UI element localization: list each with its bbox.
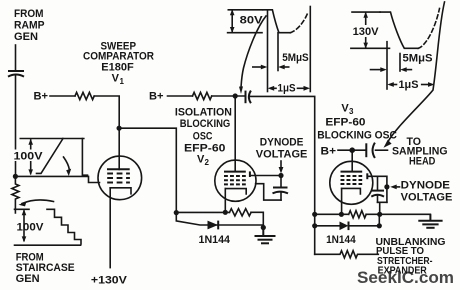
arrow 1uS left wf2 <box>387 82 396 87</box>
resistor R4 <box>349 211 366 218</box>
waveform 80V dashed rise <box>290 11 308 32</box>
node row A left <box>174 210 179 215</box>
svg-text:EFP-60: EFP-60 <box>325 116 365 128</box>
label ISOLATION BLOCKING OSC EFP-60 V2 <box>175 107 232 167</box>
svg-text:5MμS: 5MμS <box>282 52 309 64</box>
svg-text:FROM: FROM <box>14 8 44 20</box>
wire B+ to R2 <box>168 95 193 97</box>
wire C4 to sampling head <box>376 149 388 151</box>
resistor R2 <box>193 92 212 99</box>
wire grid node to V1 grid <box>15 176 99 182</box>
ground GND2 <box>418 214 442 228</box>
tube V2 plate <box>224 171 246 173</box>
svg-text:ISOLATION: ISOLATION <box>175 107 232 119</box>
node ground junction <box>261 225 266 230</box>
waveform staircase trace <box>47 209 81 244</box>
resistor R5 output <box>315 251 379 258</box>
svg-text:BLOCKING: BLOCKING <box>180 118 231 130</box>
arrow waveform to sampling head <box>384 2 445 148</box>
node V3 cathode row <box>339 212 344 217</box>
label UNBLANKING PULSE TO STRETCHER- EXPANDER <box>376 237 446 277</box>
waveform 130V topline <box>352 11 380 13</box>
arrow 130V measure <box>363 12 368 49</box>
wire row A under V2 <box>176 211 229 213</box>
capacitor C4 to sampling head <box>366 143 375 158</box>
potentiometer R6 <box>12 179 19 213</box>
arrow annotation to grid wire <box>64 157 72 176</box>
wire D2 to row1 <box>349 214 380 226</box>
node V3 plate junction <box>349 147 355 153</box>
wire V3 cathode down <box>341 188 343 214</box>
wire C2 to V3 section <box>250 96 315 254</box>
svg-text:RAMP: RAMP <box>14 19 45 31</box>
arrow pot wiper <box>19 200 54 207</box>
tube V3 cathode <box>342 188 361 194</box>
svg-text:2: 2 <box>205 158 210 167</box>
wire R3 to ground corner <box>251 212 263 227</box>
waveform 80V baseline <box>228 32 262 34</box>
svg-text:B+: B+ <box>321 145 337 157</box>
arrow 80V measure <box>230 9 235 33</box>
svg-text:SeekIC.com: SeekIC.com <box>357 268 454 287</box>
label V3 EFP-60 BLOCKING OSC <box>317 103 397 142</box>
svg-text:1N144: 1N144 <box>326 234 356 246</box>
label 100V staircase <box>16 221 45 234</box>
wire R1 to V1 plate <box>94 96 119 170</box>
node grid junction <box>13 174 18 179</box>
wire B+ to R1 <box>50 95 75 97</box>
arrow 5MuS right <box>278 65 289 70</box>
waveform ramp trace <box>37 139 88 176</box>
svg-text:GEN: GEN <box>14 31 38 43</box>
waveform 130V pulse trace <box>380 12 418 48</box>
wire input from ramp gen <box>15 45 17 70</box>
label DYNODE VOLTAGE middle <box>256 137 308 161</box>
waveform 130V dashed rise <box>418 9 439 49</box>
node row2 left <box>312 223 317 228</box>
diode D2 1N144 <box>340 222 349 231</box>
waveform 80V topline <box>228 9 262 11</box>
wire row2 under V3 <box>315 225 340 227</box>
svg-text:DYNODE: DYNODE <box>260 137 304 149</box>
svg-text:HEAD: HEAD <box>409 155 435 167</box>
svg-text:DYNODE: DYNODE <box>401 180 450 192</box>
label SWEEP COMPARATOR E180F V1 <box>83 41 154 87</box>
wire plate node down to V2 plate <box>234 96 236 172</box>
wire C3 bottom to cathode side <box>256 184 281 200</box>
arrow 5MuS left <box>253 65 267 70</box>
node V2 plate junction <box>233 93 238 98</box>
tube V3 envelope <box>330 161 373 204</box>
label FROM STAIRCASE GEN <box>16 251 75 285</box>
svg-text:100V: 100V <box>17 222 45 234</box>
svg-text:VOLTAGE: VOLTAGE <box>256 149 308 161</box>
wire C5 bottom to row1 <box>378 202 387 214</box>
label FROM RAMP GEN <box>14 8 45 43</box>
node row1 dynode drop <box>377 212 382 217</box>
label 100V ramp <box>12 150 43 163</box>
tube V3 plate <box>341 171 363 173</box>
svg-text:EFP-60: EFP-60 <box>184 142 225 154</box>
measure bar 5M wf2 <box>399 54 401 72</box>
label TO SAMPLING HEAD <box>392 136 448 168</box>
svg-text:5MμS: 5MμS <box>403 53 433 65</box>
tube V3 dynode stub <box>366 173 368 179</box>
tube V1 envelope <box>98 156 142 200</box>
wire plate node to V3 plate <box>351 150 353 171</box>
tube V1 plate <box>107 168 130 170</box>
arrow 1uS left wf1 <box>268 86 276 91</box>
svg-text:V: V <box>112 73 120 85</box>
svg-text:+130V: +130V <box>91 275 128 287</box>
svg-text:OSC: OSC <box>193 130 213 142</box>
measure bar 1uS left wf2 <box>386 42 388 89</box>
resistor R3 <box>230 209 252 216</box>
diode D1 1N144 <box>208 221 219 230</box>
svg-text:100V: 100V <box>14 151 44 163</box>
wire B+ to C4 <box>338 149 366 151</box>
svg-text:GEN: GEN <box>16 273 40 285</box>
capacitor C1 input coupling <box>8 71 24 77</box>
waveform ramp topline <box>20 138 84 140</box>
capacitor C2 coupling <box>246 91 251 104</box>
svg-text:1: 1 <box>120 77 125 86</box>
waveform 130V baseline <box>351 47 390 49</box>
node V3 dynode junction <box>384 184 389 189</box>
wire V2 dynode out <box>250 175 281 177</box>
ground GND1 <box>255 228 276 244</box>
tube V3 grid dashes <box>341 176 363 184</box>
resistor R1 <box>75 92 94 99</box>
waveform staircase top tick <box>15 208 30 210</box>
arrow 100V vertical measure <box>28 139 33 176</box>
arrow dynode voltage right annotation <box>390 185 399 190</box>
arrow 100V staircase measure <box>22 209 27 242</box>
wire R2 to C2 <box>212 95 245 97</box>
svg-text:BLOCKING OSC: BLOCKING OSC <box>317 129 397 141</box>
svg-text:3: 3 <box>349 107 354 116</box>
wire cap to grid node <box>15 76 17 176</box>
measure bar mid <box>277 33 279 71</box>
node row1 left <box>312 212 317 217</box>
wire plate node to blocking osc <box>119 128 176 212</box>
arrow waveform to V2 plate node <box>239 16 266 94</box>
wire row1 under V3 <box>315 213 349 215</box>
tube V2 dynode stub <box>249 171 251 177</box>
measure bar left <box>267 10 269 92</box>
wire V1 cathode to +130V <box>109 188 111 268</box>
node V1 plate junction <box>117 126 122 131</box>
measure bar right <box>309 7 311 92</box>
wire row B diode branch <box>176 213 263 225</box>
tube V1 grid dashes <box>107 174 130 183</box>
arrow 1uS right wf2 <box>422 82 435 87</box>
tube V2 envelope <box>215 160 256 201</box>
node V2 dynode junction <box>278 173 283 178</box>
waveform staircase baseline <box>15 244 81 246</box>
wire V2 cathode down <box>224 189 226 213</box>
capacitor C5 dynode bypass <box>371 176 384 202</box>
waveform 80V pulse trace <box>263 10 291 33</box>
arrow 1uS right wf1 <box>298 86 311 91</box>
svg-text:VOLTAGE: VOLTAGE <box>401 192 453 204</box>
arrow dynode voltage annotation <box>279 161 284 174</box>
label 130V <box>352 25 380 38</box>
svg-text:B+: B+ <box>34 91 49 103</box>
tube V2 grid dashes <box>224 176 246 184</box>
capacitor C3 dynode bypass <box>273 176 289 201</box>
tube V1 cathode <box>110 188 131 194</box>
wire V3 dynode out <box>367 176 387 202</box>
arrow 5MuS left wf2 <box>371 67 387 72</box>
svg-text:1μS: 1μS <box>399 79 419 91</box>
wire R4 to ground <box>366 213 430 215</box>
svg-text:B+: B+ <box>149 91 164 103</box>
label DYNODE VOLTAGE right <box>401 180 453 204</box>
svg-text:1μS: 1μS <box>278 82 296 94</box>
svg-text:1N144: 1N144 <box>199 234 231 246</box>
tube V2 cathode <box>225 189 246 194</box>
node row2 right <box>377 223 382 228</box>
node V2 cathode row <box>223 210 228 215</box>
svg-text:130V: 130V <box>353 26 380 38</box>
arrow 5MuS right wf2 <box>400 67 411 72</box>
